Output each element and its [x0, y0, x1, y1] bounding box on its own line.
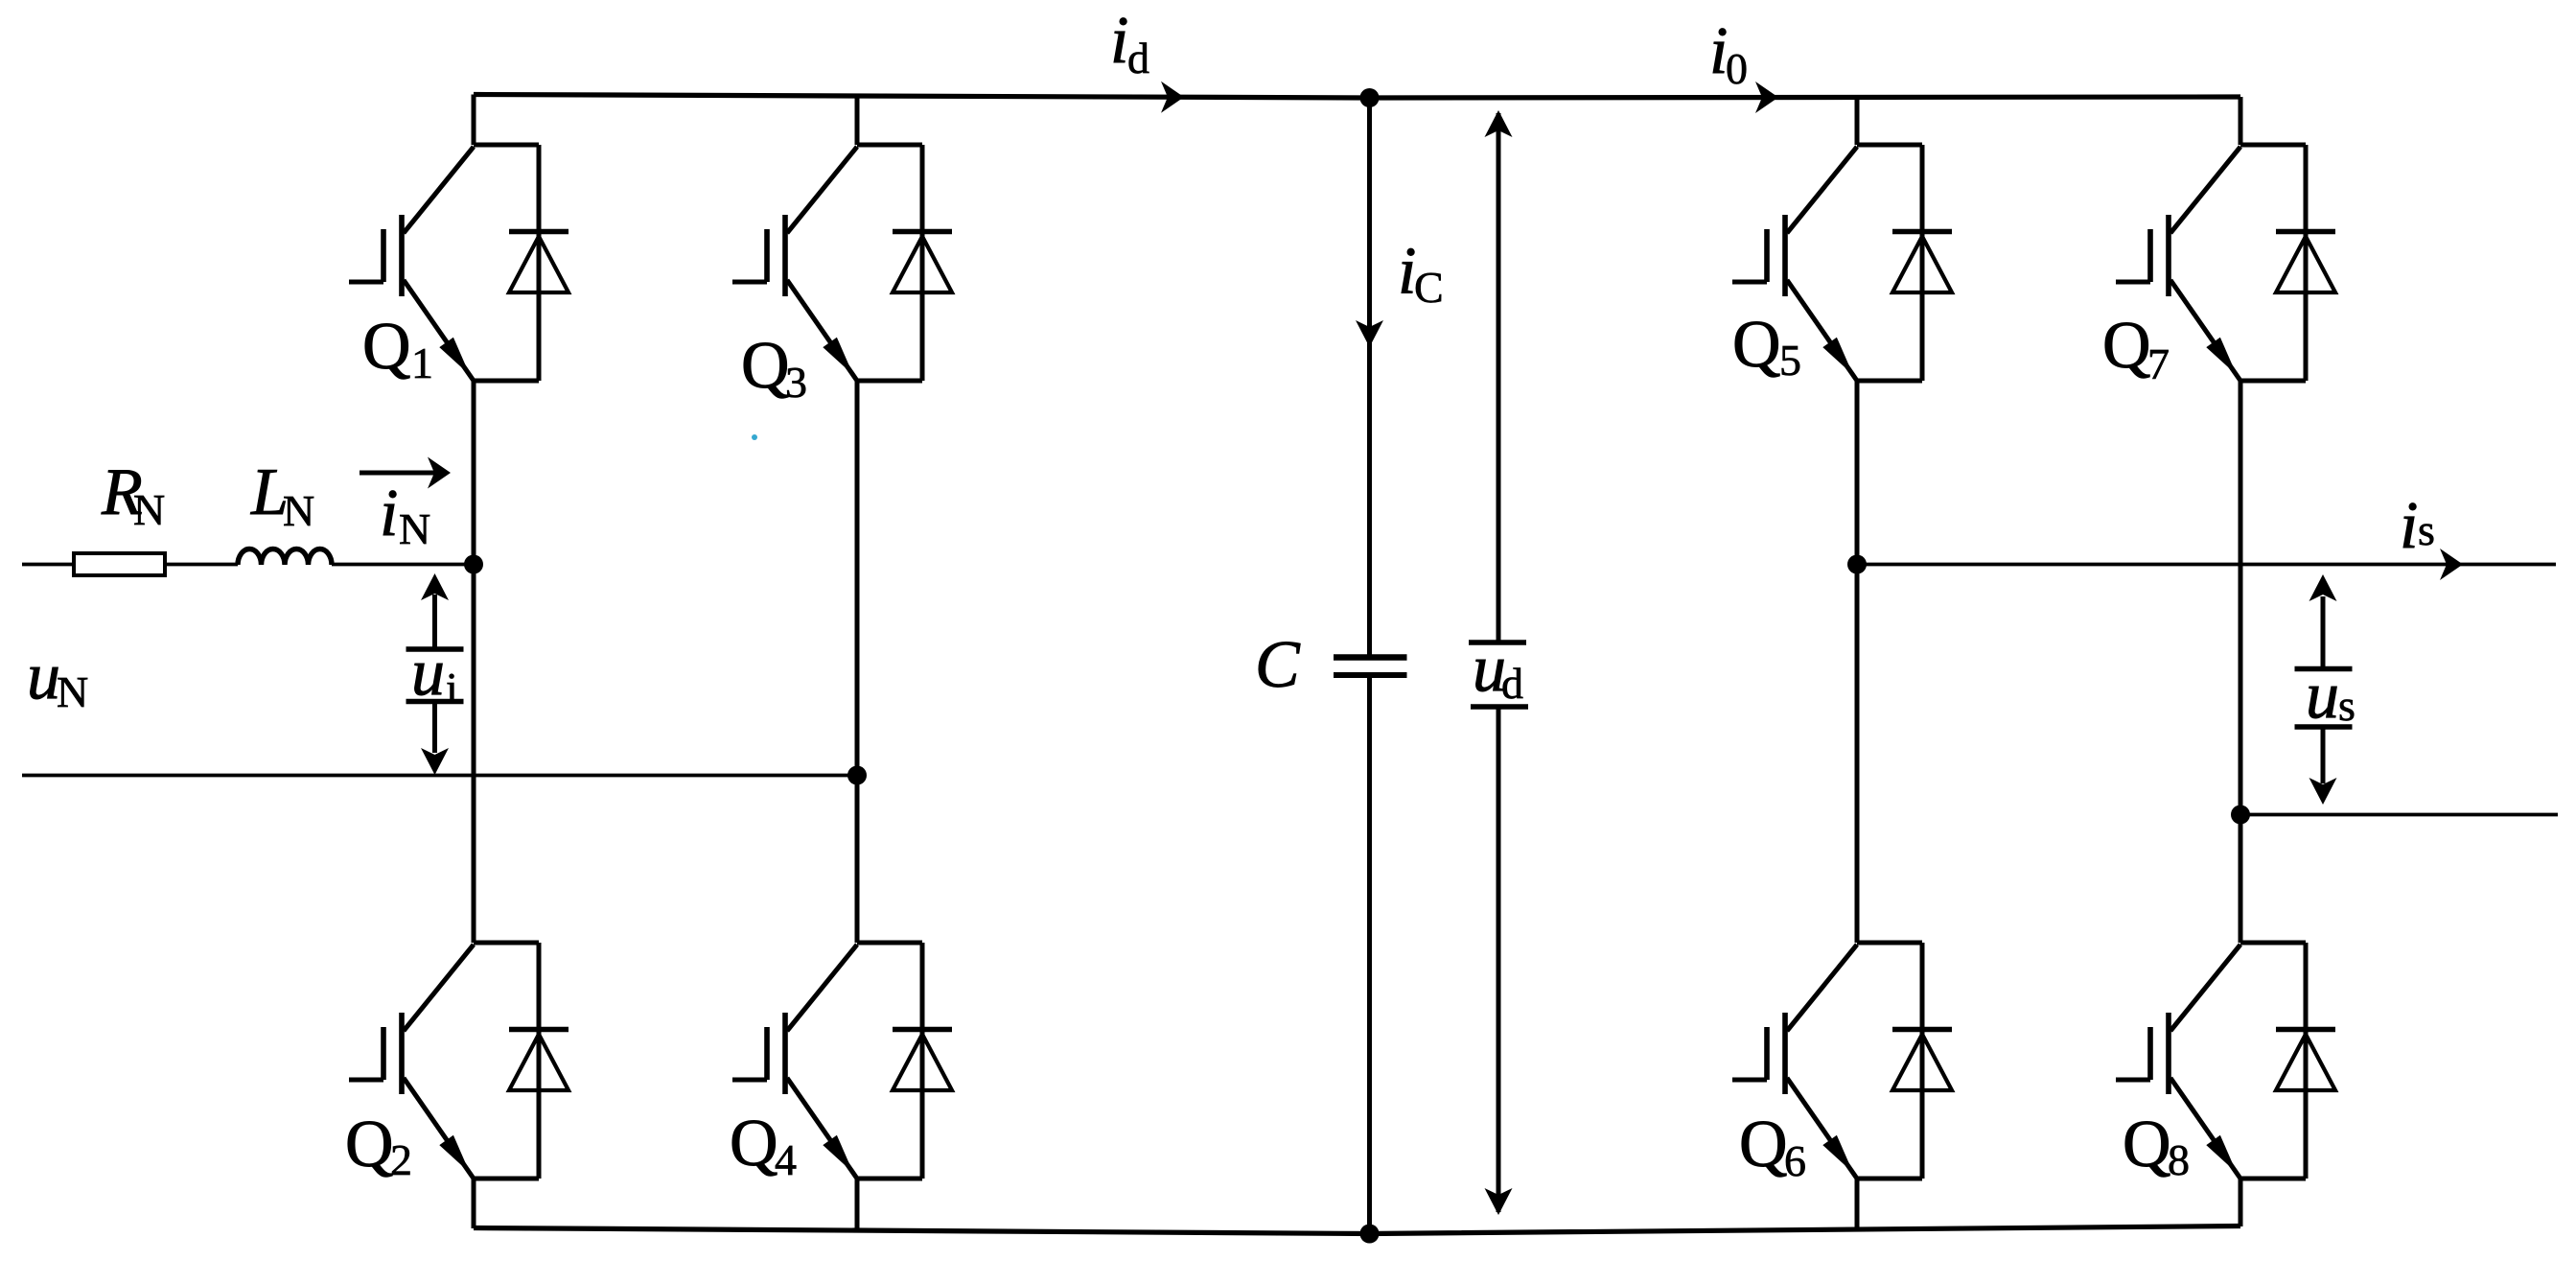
label Q8: [2123, 1108, 2190, 1184]
arrow: output voltage us (double-headed, broken for label): [2295, 574, 2353, 805]
node: lower output node on Q7/Q8 branch: [2231, 806, 2250, 825]
arrow: DC link voltage ud (double-headed, broken for label): [1469, 110, 1528, 1215]
label iN: [380, 477, 430, 553]
transistor Q5 (IGBT): [1732, 147, 1857, 381]
svg-text:d: d: [1127, 34, 1149, 82]
wire: LN to input node: [332, 563, 474, 567]
label Q2: [345, 1108, 412, 1184]
label ud: [1473, 632, 1523, 708]
resistor RN: [74, 553, 165, 575]
svg-text:Q: Q: [1739, 1108, 1788, 1181]
svg-text:N: N: [57, 667, 88, 716]
capacitor C plates: [1334, 658, 1407, 676]
svg-text:u: u: [411, 636, 445, 710]
wire: top rail node to capacitor C: [1367, 98, 1372, 655]
wire: Q5 collector/emitter to diode branch: [1857, 145, 1922, 381]
label RN: [101, 455, 165, 534]
svg-text:C: C: [1414, 263, 1444, 312]
svg-text:Q: Q: [2123, 1108, 2171, 1181]
wire: Q3 emitter to Q4 collector (return node): [855, 381, 860, 943]
arrow: capacitor current iC: [1356, 320, 1383, 347]
node: DC- rail / capacitor junction: [1360, 1225, 1380, 1244]
arrow: output current is: [2440, 549, 2463, 580]
anti-parallel diode of Q3: [893, 232, 952, 293]
arrow: input voltage ui (double-headed, broken for label): [406, 573, 464, 775]
transistor Q3 (IGBT): [732, 147, 857, 381]
anti-parallel diode of Q7: [2276, 232, 2335, 293]
node: AC input node on Q1/Q2 branch: [464, 555, 483, 574]
svg-text:Q: Q: [730, 1107, 778, 1180]
transistor Q2 (IGBT): [349, 945, 474, 1179]
anti-parallel diode of Q1: [509, 232, 569, 293]
node: DC+ rail / capacitor junction: [1360, 88, 1380, 107]
svg-text:N: N: [133, 485, 165, 534]
wire: Q1 emitter to Q2 collector (AC input node): [472, 381, 476, 943]
wire: Q3 collector/emitter to diode branch: [857, 145, 922, 381]
wire: top rail to Q5 collector: [1855, 98, 1860, 146]
transistor Q1 (IGBT): [349, 147, 474, 381]
wire: Q2 collector/emitter to diode branch: [474, 943, 539, 1179]
wire: Q4 emitter to bottom rail: [855, 1179, 860, 1231]
wire: top rail to Q3 collector: [855, 96, 860, 145]
wire: Q5 emitter to Q6 collector (output node): [1855, 381, 1860, 943]
svg-text:4: 4: [775, 1135, 797, 1184]
wire: Q7 emitter to Q8 collector (lower output node): [2239, 381, 2243, 943]
arrow: input current iN (above input wire): [360, 457, 451, 489]
svg-text:Q: Q: [1732, 308, 1781, 382]
svg-text:i: i: [380, 477, 398, 550]
wire: Q6 collector/emitter to diode branch: [1857, 943, 1922, 1179]
anti-parallel diode of Q6: [1892, 1030, 1952, 1091]
svg-text:3: 3: [785, 358, 807, 407]
wire: Q2 emitter to bottom rail: [472, 1179, 476, 1228]
transistor Q8 (IGBT): [2116, 945, 2240, 1179]
transistor Q4 (IGBT): [732, 945, 857, 1179]
wire: positive DC rail (top): [474, 95, 2240, 99]
arrow: rectifier output current id: [1161, 82, 1184, 113]
arrow: inverter input current i0: [1755, 82, 1778, 113]
label is: [2400, 489, 2435, 563]
svg-text:1: 1: [411, 339, 433, 387]
artifact: small cyan dot: [752, 434, 757, 440]
svg-text:C: C: [1255, 628, 1301, 702]
svg-text:s: s: [2418, 505, 2435, 554]
wire: Q7 collector/emitter to diode branch: [2240, 145, 2306, 381]
wire: top rail to Q7 collector: [2239, 97, 2243, 145]
label Q5: [1732, 308, 1801, 385]
svg-text:d: d: [1501, 659, 1523, 708]
svg-text:2: 2: [390, 1135, 412, 1184]
svg-text:u: u: [27, 640, 60, 713]
wire: output is (Q5/Q6 node to right edge): [1857, 563, 2556, 567]
svg-text:Q: Q: [362, 310, 411, 384]
label LN: [250, 455, 314, 535]
inductor LN: [238, 549, 332, 565]
svg-text:N: N: [283, 486, 314, 535]
wire: capacitor C to bottom rail node: [1367, 678, 1372, 1234]
anti-parallel diode of Q2: [509, 1030, 569, 1091]
svg-text:i: i: [1110, 4, 1128, 78]
transistor Q6 (IGBT): [1732, 945, 1857, 1179]
label iC: [1398, 235, 1444, 313]
svg-text:Q: Q: [345, 1108, 394, 1181]
wire: negative DC rail (bottom): [474, 1226, 2240, 1234]
svg-text:s: s: [2338, 681, 2356, 730]
svg-text:7: 7: [2147, 339, 2170, 388]
svg-text:6: 6: [1784, 1136, 1806, 1185]
svg-text:0: 0: [1726, 44, 1748, 93]
anti-parallel diode of Q5: [1892, 232, 1952, 293]
svg-text:8: 8: [2168, 1135, 2190, 1184]
label Q7: [2102, 309, 2170, 388]
node: return node on Q3/Q4 branch: [847, 766, 867, 785]
wire: Q8 emitter to bottom rail: [2239, 1179, 2243, 1226]
svg-text:Q: Q: [741, 329, 790, 403]
transistor Q7 (IGBT): [2116, 147, 2240, 381]
wire: return wire (uN lower terminal to Q3/Q4 midpoint): [22, 774, 857, 778]
label id: [1110, 4, 1149, 82]
wire: Q6 emitter to bottom rail: [1855, 1179, 1860, 1230]
label Q3: [741, 329, 807, 407]
wire: top rail to Q1 collector: [472, 95, 476, 146]
label uN: [27, 640, 88, 716]
anti-parallel diode of Q8: [2276, 1030, 2335, 1091]
label Q1: [362, 310, 433, 387]
node: output node on Q5/Q6 branch: [1847, 555, 1867, 574]
label us: [2306, 659, 2356, 733]
label Q4: [730, 1107, 797, 1184]
svg-text:i: i: [2400, 489, 2418, 563]
anti-parallel diode of Q4: [893, 1030, 952, 1091]
label Q6: [1739, 1108, 1806, 1185]
label i0: [1709, 14, 1748, 93]
svg-text:5: 5: [1779, 336, 1801, 385]
wire: Q8 collector/emitter to diode branch: [2240, 943, 2306, 1179]
wire: lower output (Q7/Q8 node to right edge): [2240, 813, 2558, 817]
svg-text:Q: Q: [2102, 309, 2151, 383]
wire: Q4 collector/emitter to diode branch: [857, 943, 922, 1179]
wire: Q1 collector/emitter to diode branch: [474, 145, 539, 381]
label ui: [411, 636, 458, 712]
svg-text:i: i: [446, 664, 458, 712]
wire: RN to LN: [167, 563, 238, 567]
wire: source to resistor RN: [22, 563, 72, 567]
svg-text:u: u: [2306, 659, 2339, 733]
svg-text:N: N: [399, 504, 430, 553]
